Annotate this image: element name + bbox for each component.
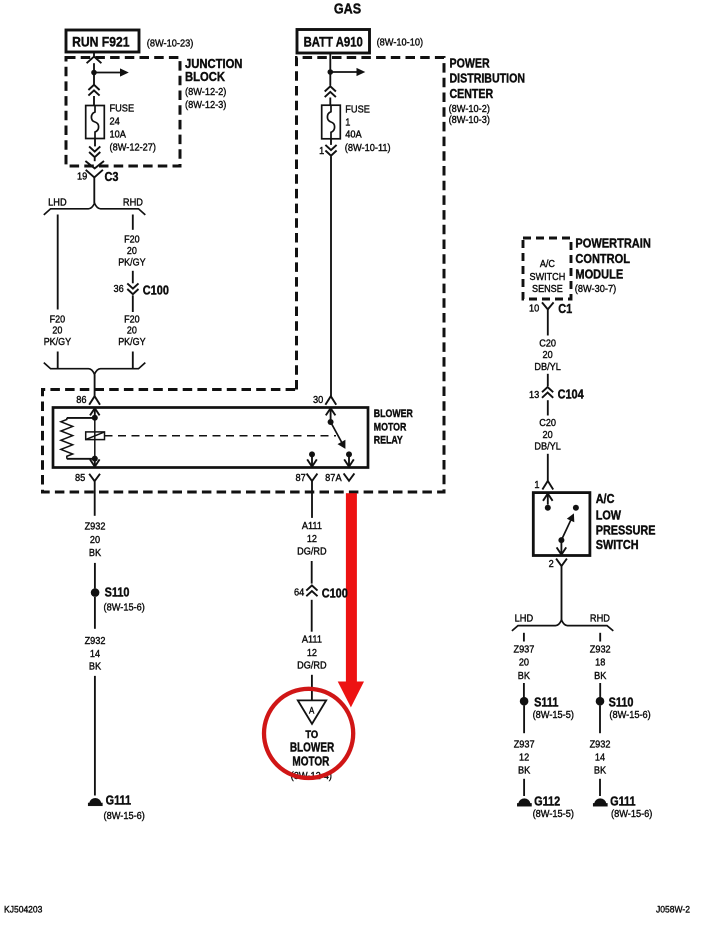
svg-text:RHD: RHD [590,613,610,625]
svg-text:FUSE: FUSE [110,103,135,115]
svg-text:SWITCH: SWITCH [596,538,639,552]
relay contact 87A dot [346,451,352,457]
svg-text:Z932: Z932 [85,521,106,533]
svg-text:12: 12 [307,647,317,659]
svg-text:(8W-12-3): (8W-12-3) [185,99,226,111]
svg-text:Z937: Z937 [513,644,534,656]
wire below S111 splice [523,706,525,734]
svg-text:40A: 40A [345,129,362,141]
svg-text:MODULE: MODULE [575,267,623,282]
svg-text:S110: S110 [105,584,130,599]
svg-text:C100: C100 [143,283,169,298]
svg-text:RUN F921: RUN F921 [72,34,129,50]
wire C3 to LHD/RHD split [93,177,95,203]
A/C low pressure switch case [533,493,590,556]
male terminal chevrons above fuse 1 [325,86,336,91]
svg-text:(8W-30-7): (8W-30-7) [575,283,616,295]
wire above S110 splice [94,563,96,589]
svg-text:2: 2 [549,559,554,571]
wire A/C switch to split [561,566,563,620]
svg-text:S111: S111 [534,694,559,709]
svg-text:1: 1 [534,479,540,491]
svg-text:Z932: Z932 [85,635,106,647]
svg-text:19: 19 [77,171,88,183]
ground G111 symbol (right) [595,799,606,804]
wire to ground G111 (right) [599,779,601,796]
feed arrow to other circuits (PDC) [330,71,357,73]
wire to ground G111 (left) [94,676,96,796]
relay coil through-wire [94,418,96,459]
relay contact 87 dot [309,451,315,457]
svg-text:(8W-10-11): (8W-10-11) [345,143,391,155]
svg-text:LHD: LHD [515,613,533,625]
connector C1 funnel [542,302,548,309]
svg-text:DG/RD: DG/RD [297,660,326,672]
svg-text:C1: C1 [558,301,572,316]
relay armature dashed link [105,435,337,437]
ground G111 symbol (left) [90,798,101,803]
svg-text:RHD: RHD [123,197,143,209]
svg-text:CONTROL: CONTROL [575,251,630,266]
connector C100 chevrons (pin 36) [127,283,138,288]
wire above C100 (pin 64) [311,561,313,584]
wire to ground G112 [523,779,525,796]
svg-text:(8W-15-5): (8W-15-5) [533,809,574,821]
split bracket under C3 [44,203,146,215]
svg-text:F20: F20 [124,314,139,326]
svg-text:POWERTRAIN: POWERTRAIN [575,236,650,251]
svg-text:(8W-10-23): (8W-10-23) [147,38,193,50]
svg-text:18: 18 [595,657,606,669]
svg-text:(8W-15-6): (8W-15-6) [104,810,145,822]
female terminal chevrons below fuse 1 [325,145,336,150]
svg-text:BLOWER: BLOWER [290,742,334,755]
connector C100 chevrons (pin 64) [306,585,317,590]
relay contact 87 exit arrow [311,454,313,466]
svg-text:1: 1 [345,117,351,129]
svg-text:BLOWER: BLOWER [374,408,413,420]
svg-text:TO: TO [305,729,318,741]
wire to A/C low pressure switch [547,454,549,481]
junction block dashed enclosure [66,58,180,167]
svg-text:14: 14 [90,649,101,661]
svg-text:12: 12 [519,752,529,764]
A/C switch pin 2 connector [556,559,567,566]
junction node dot (junction block feed) [91,70,97,76]
relay coil bottom node dot [92,456,98,462]
svg-text:12: 12 [307,534,317,546]
svg-text:20: 20 [519,657,530,669]
powertrain control module dashed box [523,238,571,299]
svg-text:Z932: Z932 [590,739,611,751]
wire to blower motor off-page triangle [311,675,313,701]
wire RHD drop (right) [599,633,601,642]
svg-text:BK: BK [594,670,607,682]
relay pin 87A connector [344,473,355,480]
svg-text:G112: G112 [534,793,560,808]
svg-text:10: 10 [529,303,540,315]
svg-text:(8W-15-6): (8W-15-6) [104,602,145,614]
svg-text:S110: S110 [609,694,634,709]
svg-text:(8W-15-5): (8W-15-5) [533,710,574,722]
svg-text:64: 64 [294,587,305,599]
relay pin 85 connector [89,474,100,481]
feed arrow to other circuits (left) [94,72,121,74]
connector vee at junction block exit [85,161,104,168]
svg-text:LOW: LOW [596,509,622,523]
svg-text:MOTOR: MOTOR [292,755,329,768]
svg-text:(8W-10-3): (8W-10-3) [449,114,490,126]
svg-text:SENSE: SENSE [532,283,563,295]
wire below fuse 24 [94,139,96,147]
fuse 1 (40A) [322,105,341,139]
male terminal chevrons above fuse 24 [88,85,99,90]
wire pin 85 to splice [94,481,96,516]
svg-text:(8W-10-10): (8W-10-10) [377,37,423,49]
svg-text:(8W-12-27): (8W-12-27) [110,142,156,154]
svg-text:20: 20 [90,535,101,547]
merge bracket above relay pin 86 [44,363,146,375]
wire above C104 [547,374,549,386]
svg-text:C20: C20 [539,338,556,350]
svg-text:Z937: Z937 [514,739,535,751]
svg-text:BLOCK: BLOCK [185,70,225,85]
power source box RUN F921 [66,30,139,52]
svg-text:(8W-12-2): (8W-12-2) [185,87,226,99]
wire RHD branch lower [132,352,134,369]
svg-text:LHD: LHD [48,197,66,209]
wire below C100 (pin 64) [311,600,313,632]
svg-text:14: 14 [595,752,606,764]
relay coil entry arrow (pin 86) [94,408,96,417]
svg-text:85: 85 [75,473,86,485]
ground G112 symbol [519,799,530,804]
wire to fuse 1 [329,98,331,106]
relay contact 87A exit arrow [348,454,350,466]
svg-text:24: 24 [110,116,121,128]
connector chevron into junction block [87,57,102,64]
svg-text:CENTER: CENTER [450,87,494,101]
svg-text:G111: G111 [610,793,636,808]
svg-text:BK: BK [518,670,531,682]
wire below S110 splice (right) [599,706,601,734]
svg-text:POWER: POWER [450,57,491,71]
power source box BATT A910 [297,30,370,54]
relay coil winding symbol [86,432,105,440]
svg-text:A111: A111 [302,634,322,646]
svg-text:C100: C100 [322,586,348,601]
svg-text:C104: C104 [558,387,584,402]
A/C switch exit arrow [560,540,562,555]
relay coil bottom wire [67,458,95,460]
wire into junction dot [93,63,95,85]
svg-text:A111: A111 [302,520,322,532]
splice S110 dot (left) [91,588,100,597]
wire LHD drop (right) [523,633,525,642]
svg-text:G111: G111 [106,792,132,807]
svg-text:J058W-2: J058W-2 [656,904,690,915]
svg-text:30: 30 [313,394,324,406]
svg-text:BK: BK [89,661,102,673]
wire to fuse 24 [93,96,95,106]
svg-text:10A: 10A [110,129,127,141]
svg-text:(8W-15-6): (8W-15-6) [611,809,652,821]
svg-text:1: 1 [319,145,325,157]
wire LHD branch upper [57,215,59,310]
wire fuse 1 to relay pin 30 [330,156,332,396]
red highlight arrow head [338,682,364,708]
blower motor relay case [53,408,368,468]
wire LHD branch lower [57,352,59,369]
svg-text:FUSE: FUSE [345,104,370,116]
svg-text:20: 20 [127,245,137,257]
relay pin 86 connector [89,396,100,405]
svg-text:20: 20 [543,350,554,362]
svg-text:DB/YL: DB/YL [534,441,561,453]
wire RUN F921 to junction block [93,52,95,57]
svg-text:PRESSURE: PRESSURE [596,524,656,538]
svg-text:BK: BK [594,765,607,777]
svg-text:86: 86 [76,395,87,407]
split bracket below A/C switch [512,620,613,631]
junction node dot (PDC feed) [328,69,334,75]
relay coil top wire [67,417,95,419]
relay coil exit arrow (pin 85) [94,459,96,467]
svg-text:RELAY: RELAY [374,434,403,446]
svg-text:BK: BK [518,765,531,777]
svg-text:PK/GY: PK/GY [118,337,146,349]
A/C switch pivot dot [558,537,564,543]
svg-text:A/C: A/C [540,259,555,271]
connector C104 chevrons [542,387,553,392]
wire merge to relay pin 86 [94,374,96,396]
svg-text:SWITCH: SWITCH [530,272,566,284]
splice S110 dot (right) [596,697,605,706]
off-page triangle A to blower motor [298,700,326,724]
svg-text:(8W-10-2): (8W-10-2) [449,103,490,115]
wire below C104 [547,400,549,415]
A/C switch fixed contact dot (right) [573,505,579,511]
wire RHD to C100 [132,271,134,284]
wire pin 87 down [311,481,313,518]
svg-text:(8W-15-6): (8W-15-6) [609,710,650,722]
svg-text:A/C: A/C [596,493,615,507]
wire below fuse 1 [330,139,332,145]
wire to junction block border [94,158,96,161]
svg-text:DISTRIBUTION: DISTRIBUTION [450,72,526,86]
svg-text:20: 20 [127,325,137,337]
svg-text:20: 20 [52,325,62,337]
A/C switch fixed contact dot (left) [545,505,551,511]
svg-text:C20: C20 [539,418,556,430]
svg-text:BK: BK [89,548,102,560]
wire C1 down [547,309,549,335]
red highlight circle around blower motor reference [264,689,353,778]
svg-text:36: 36 [114,283,125,295]
wire BATT A910 into PDC [329,53,331,86]
svg-text:Z932: Z932 [590,644,611,656]
svg-text:GAS: GAS [334,0,361,17]
svg-text:20: 20 [543,430,554,442]
svg-text:A: A [309,705,315,716]
relay common entry arrow (pin 30) [330,408,332,422]
svg-text:DG/RD: DG/RD [297,546,326,558]
wire below C100 (RHD) [132,295,134,312]
relay switch armature [331,422,342,442]
fuse 24 (10A) [86,106,105,139]
svg-text:C3: C3 [105,169,119,184]
splice S111 dot [520,697,529,706]
A/C switch pin 1 connector [542,481,553,490]
svg-text:KJ504203: KJ504203 [4,904,42,915]
relay pin 30 connector [325,396,336,405]
connector C3 funnel [86,170,95,178]
svg-text:F20: F20 [124,234,139,246]
wire above S110 splice (right) [599,683,601,697]
svg-text:13: 13 [529,389,540,401]
A/C switch entry arrow [547,494,549,505]
svg-text:MOTOR: MOTOR [374,421,407,433]
wire above S111 splice [523,683,525,697]
svg-text:PK/GY: PK/GY [44,337,72,349]
wire below S110 splice [94,597,96,629]
relay coil top node dot [92,415,98,421]
A/C switch armature [561,520,570,540]
relay common node dot [328,419,334,425]
svg-text:F20: F20 [50,314,65,326]
svg-text:87A: 87A [325,472,342,484]
wire RHD branch upper [132,215,134,230]
power distribution center + relay dashed enclosure [43,58,445,493]
relay suppression resistor zigzag [61,418,73,459]
relay pin 87 connector [307,474,318,481]
svg-text:DB/YL: DB/YL [534,362,561,374]
red highlight arrow shaft [346,493,357,682]
svg-text:PK/GY: PK/GY [118,257,146,269]
female terminal chevrons below fuse 24 [89,146,100,151]
svg-text:BATT A910: BATT A910 [304,35,363,50]
svg-text:87: 87 [296,472,306,484]
